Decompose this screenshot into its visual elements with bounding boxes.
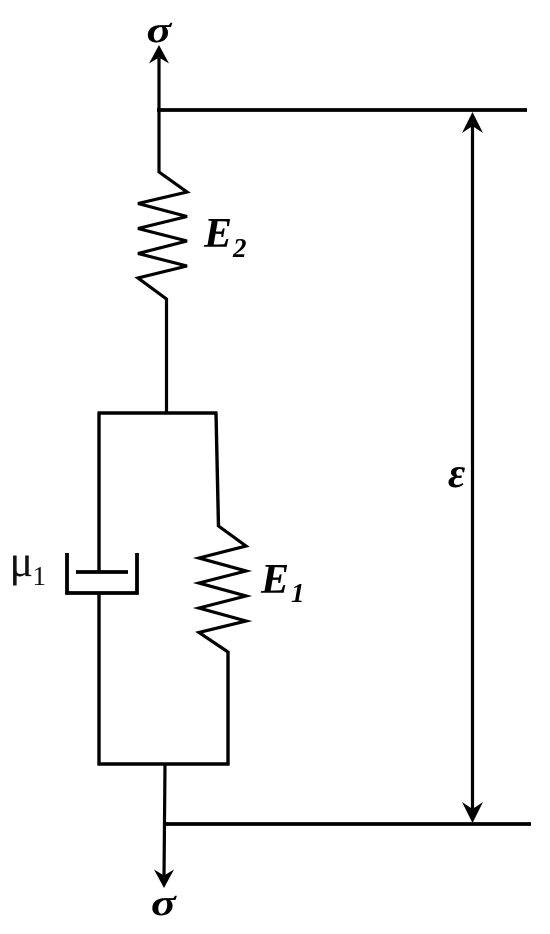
wire box bottom edge bbox=[98, 762, 230, 766]
arrowhead epsilon top (up) bbox=[462, 112, 483, 133]
spring E1 zigzag bbox=[199, 526, 246, 652]
wire box left edge lower bbox=[97, 593, 100, 765]
svg-text:2: 2 bbox=[232, 233, 247, 263]
svg-text:ε: ε bbox=[448, 451, 465, 497]
dashpot cup bbox=[67, 553, 137, 593]
svg-text:1: 1 bbox=[291, 578, 305, 608]
node sigma-top label bbox=[147, 10, 173, 51]
wire box right edge lower bbox=[226, 651, 229, 765]
svg-text:1: 1 bbox=[33, 561, 47, 591]
spring E2 zigzag bbox=[138, 172, 187, 299]
svg-text:σ: σ bbox=[147, 10, 173, 51]
dashpot piston plate bbox=[76, 570, 128, 574]
svg-text:μ: μ bbox=[10, 537, 34, 586]
wire epsilon measurement line bbox=[471, 118, 474, 817]
wire bottom stress stem bbox=[164, 764, 165, 878]
svg-text:σ: σ bbox=[151, 883, 177, 924]
wire spring E2 bottom lead to box bbox=[165, 298, 168, 414]
wire bottom horizontal rail bbox=[163, 822, 531, 826]
node sigma-bottom label bbox=[151, 883, 177, 924]
wire box right edge upper bbox=[216, 413, 219, 527]
wire box left edge upper (dashpot rod) bbox=[97, 413, 100, 573]
wire top stress arrow stem bbox=[157, 58, 160, 112]
arrowhead epsilon bottom (down) bbox=[462, 802, 483, 823]
wire box top edge bbox=[98, 411, 218, 415]
arrowhead bottom sigma (down) bbox=[154, 870, 174, 889]
svg-text:E: E bbox=[260, 557, 289, 603]
svg-text:E: E bbox=[203, 211, 232, 257]
wire top horizontal rail bbox=[157, 108, 527, 112]
arrowhead top sigma (up) bbox=[149, 45, 169, 64]
wire lead from rail to spring E2 bbox=[157, 110, 160, 173]
